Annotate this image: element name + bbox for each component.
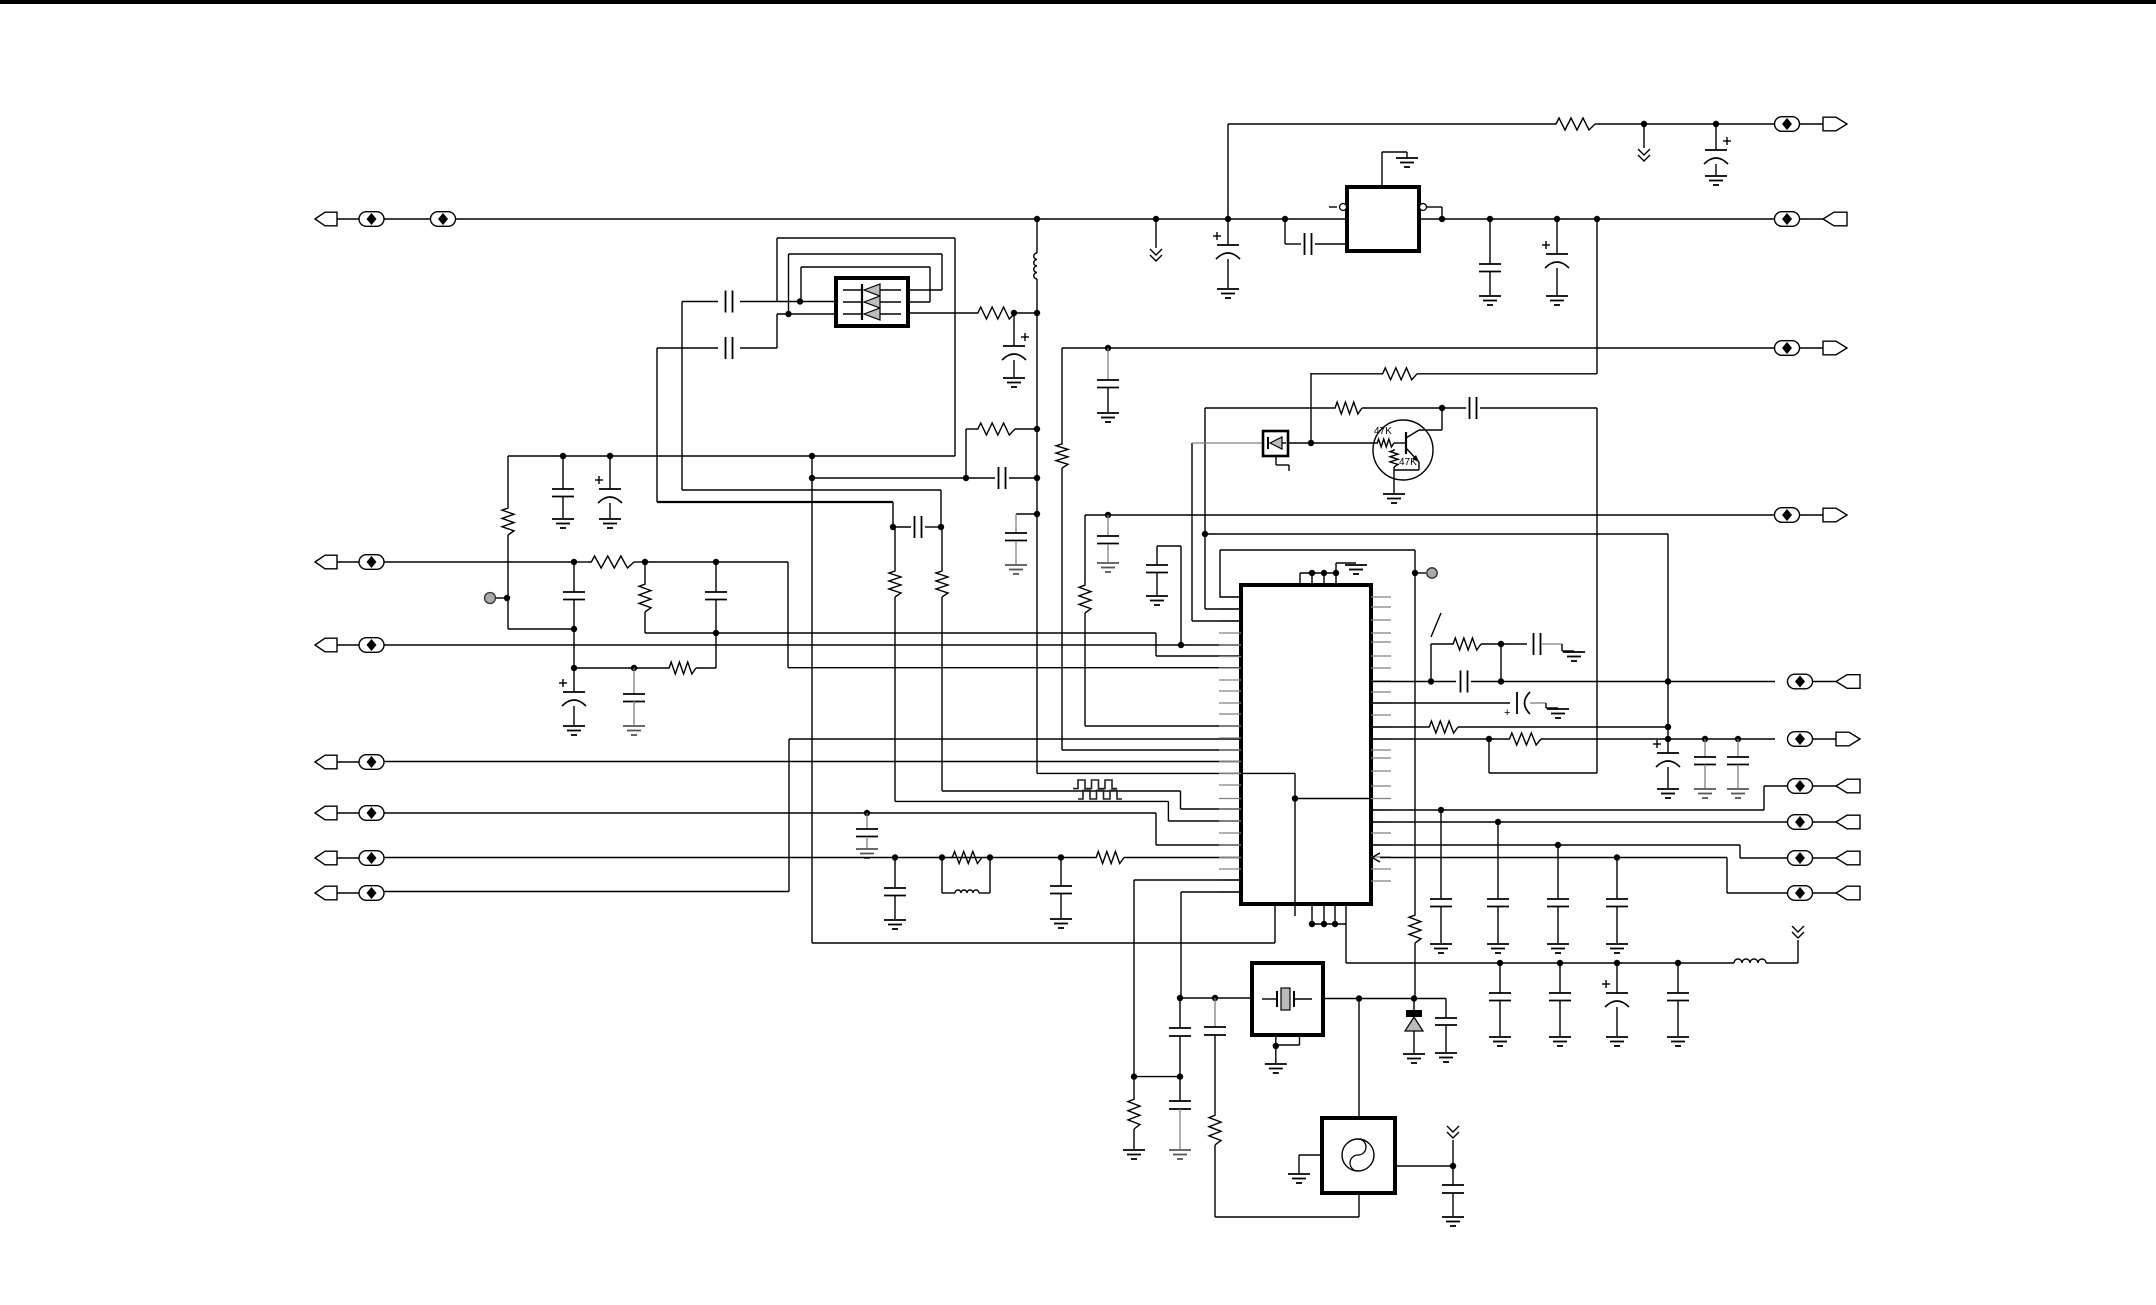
row478 with capacitor C7 [963,475,969,481]
junction x1442 [1439,216,1445,222]
corner x1062 down [1061,348,1063,442]
capacitor C6 polarized [1013,313,1015,346]
capacitor C25 row644 [1501,643,1527,645]
wire x1192 bus diode row [1191,443,1193,621]
wire up from 1228 to rail124 [1227,124,1229,219]
U2 left pin bubble [1329,206,1337,208]
Q1 emitter ground [1383,493,1405,495]
wire x941 from y490 [940,490,942,527]
wire x895 wave row [895,800,1168,802]
row810 to connector786 [1371,809,1764,811]
resistor R12 x1415 [1409,913,1421,943]
capacitor C27 polarized x1668 [1657,752,1679,754]
resistor R2 vertical x895 [894,527,896,569]
row739 wire to IC [789,738,1241,740]
capacitor C1 at 563 [560,453,566,459]
crystal X1 box [1252,963,1323,1035]
capacitor C2 polarized at 610 [607,453,613,459]
oscillator left pin ground [1299,1154,1322,1156]
x1215 chain cap C41 [1214,998,1216,1027]
wire rail858 [384,857,1095,859]
Q1 emitter resistor 47K [1390,449,1398,467]
wire x812 vertical [811,456,813,943]
row857 arrow into IC [1372,853,1380,862]
capacitor C17 x716 [715,562,717,592]
connector CNR6 [1788,732,1813,747]
capacitor C10 polarized at 1228 [1227,219,1229,245]
ground row644 [1563,651,1585,653]
wire x1597 from rail219 [1596,219,1598,374]
wire x682 down [681,302,683,491]
capacitor C30 x1441 [1440,810,1442,899]
LED block U3 [836,278,908,326]
capacitor C28 x1705 [1704,739,1706,757]
wire over-top loop [1220,549,1415,551]
junction x812 rail456 [809,453,815,459]
junction x1228 [1225,216,1231,222]
wire to oscillator bottom [1215,1216,1359,1218]
resistor R20 on rail124 [1553,118,1595,130]
pulse glyph lower [1078,790,1122,799]
resistor R1 vertical x508 [502,506,514,535]
IC left pin stubs [1219,596,1241,598]
transistor Q1 [1373,420,1433,480]
U2 right pin bubble [1420,204,1427,211]
connector J6 [315,851,337,865]
capacitor C34 x1500 [1499,963,1501,993]
wire x1359 to oscillator [1358,999,1360,1119]
resistor R5 row429 [966,428,975,430]
wire rail219 [455,218,1347,220]
capacitor C33 x1617 [1616,858,1618,900]
junction x1311 [1308,440,1314,446]
crystal area wires [1177,995,1183,1001]
resistor R21 vertical x1062 [1056,442,1068,468]
wire rail348 [1062,347,1775,349]
row374 resistor R13 [1311,373,1380,375]
LED D3 [843,313,862,315]
wire x1134-x1180 link [1134,1076,1180,1078]
LED block loops outer [954,238,956,456]
capacitor C24 row408 [1442,407,1466,409]
row408 resistor R14 [1205,407,1333,409]
pad P1 grey [485,593,496,604]
diode D4 bottom stub [1275,456,1277,465]
wire x1062 to IC pin [1062,749,1241,751]
capacitor C29 x1738 [1737,739,1739,757]
wire x1037 vertical [1036,312,1038,773]
ground below C10 [1217,288,1239,290]
wire rail645 to IC [384,644,1242,646]
junction pad [504,595,510,601]
connector CNR5 [1788,674,1813,689]
IC bottom pins [1274,904,1276,943]
LED block loops middle [788,254,790,314]
wire x893 to cap row [892,502,894,527]
wire x1415 long vertical [1414,550,1416,913]
LED out resistor R4 [908,312,975,314]
wire y490 row [682,489,941,491]
inductor L1 vertical [1036,219,1038,253]
IC right pin stubs [1371,596,1391,598]
connector J7 [315,886,337,900]
oscillator right pin [1395,1165,1453,1167]
row727 resistor R15 [1371,726,1427,728]
pulse glyph upper [1073,780,1117,789]
diode D4 box [1263,431,1288,456]
resistor R7 rail562 [571,559,577,565]
test point oval TP2 [431,212,456,227]
wire IC internal trace [1243,772,1295,774]
row739 resistor R16 to connector [1371,738,1489,740]
rail813 jog to IC pin845 [1155,813,1157,845]
wire x1346 down to rail963 [1345,924,1347,963]
junction 1644 + arrow ground [1641,121,1647,127]
resistor R17 x1134 [1133,1077,1135,1097]
row703 polarized cap C26 [1371,702,1510,704]
crystal symbol [1262,998,1277,1000]
wire y943 to left [812,942,1275,944]
voltage regulator U2 [1347,187,1419,251]
wire x1037 to IC pin774 [1037,772,1241,774]
row668 node lower [571,665,577,671]
IC top pins [1299,573,1301,585]
capacitor C13 polarized at 1557 [1554,216,1560,222]
capacitor C11 to regulator [1284,219,1286,244]
wire x657 down [656,348,658,502]
capacitor C22 x895 [894,858,896,889]
wire x1205 bus [1204,408,1206,609]
wire rail813 [384,812,1157,814]
LED block loops inner [800,267,802,302]
junction x1597 rail219 [1594,216,1600,222]
connector CNR7 [1788,779,1813,794]
capacitor C5 in row527 [890,524,896,530]
Q1 collector [1406,430,1419,438]
capacitor C18 polarized x574 [573,668,575,692]
row668 wire to IC [788,667,1241,669]
svg-text:+: + [1504,707,1510,719]
junction caps on rail858 [892,854,898,860]
junction x1037 row313 [1034,310,1040,316]
connector CNR3 [1775,341,1800,356]
capacitor C12 at 1490 [1487,216,1493,222]
wire x1181 from IC pin892 [1181,891,1241,893]
resistor R6 vertical x1085 [1084,515,1086,583]
wire x1597 second vertical [1596,408,1598,773]
crystal right row [1323,998,1446,1000]
capacitor C19 x634 [633,668,635,694]
row644 slash switch [1430,644,1432,681]
wire rail893 [384,891,790,893]
wire y502 row thick [657,501,893,503]
row681 to connector687 [1371,681,1431,683]
resistor R18 x1215 [1209,1113,1221,1145]
capacitor C21 at 867 [864,810,870,816]
row514 stub cap C8 [1016,513,1037,515]
connector CNR9 [1788,851,1813,866]
wire rail762 to IC [384,761,1242,763]
wire x788 rail562 corner [787,562,789,668]
row633 jog to IC pin656 [1155,633,1157,656]
inductor L3 [1734,959,1766,963]
connector J3 [315,638,337,652]
junction on rail219 x1037 [1034,216,1040,222]
junction C6 [1011,310,1017,316]
capacitor C42 x1453 [1452,1166,1454,1185]
wire rail124 [1228,123,1553,125]
connector J5 [315,806,337,820]
connector CNR2 [1775,212,1800,227]
capacitor C3 left of LED block [682,301,718,303]
oscillator symbol [1342,1139,1374,1171]
capacitor C36 polarized x1617 [1616,963,1618,993]
wire y456 rail [508,455,955,457]
capacitor C38 x1446 [1445,999,1447,1019]
Q1 emitter with arrow [1406,448,1419,462]
IC U1 main [1241,585,1371,904]
wire x1311 up to row374 [1310,373,1312,443]
resistor R9 row668 [667,662,696,674]
resistor R3 vertical x942 [941,527,943,569]
junction x1156 + arrow ground [1153,216,1159,222]
junction row534 [1202,531,1208,537]
wire x789 up to row739 [788,739,790,892]
connector J1 arrow [315,212,337,226]
junction x1181 rail645 [1178,642,1184,648]
vertical x508 [507,456,509,506]
row822 to connector822 [1371,821,1788,823]
junction x1442 row408 [1439,405,1445,411]
wire x942 wave row [942,790,1181,792]
zener D5 [1413,999,1415,1011]
antenna chevron right [1797,940,1799,963]
connector CNR1 [1775,117,1800,132]
svg-text:47K: 47K [1374,426,1392,437]
capacitor C32 x1558 [1557,845,1559,899]
connector CNR8 [1788,815,1813,830]
capacitor C16 x574 [573,562,575,592]
antenna chevron x1453 [1452,1140,1454,1166]
wire x1181 up capacitor C20 [1180,546,1182,645]
capacitor C15 at 1108 [1105,345,1111,351]
junction x1285 [1282,216,1288,222]
cap C40 x1180 lower [1179,1077,1181,1101]
wire rail562 [384,561,575,563]
capacitor C37 x1678 [1677,963,1679,993]
cap C39 x1180 upper [1179,998,1181,1028]
row534 to right corner [1205,533,1668,535]
wire x1668 vertical [1667,534,1669,753]
resistor R11 parallel inductor L2 [939,854,945,860]
LED D1 [843,289,862,291]
connector CNR10 [1788,886,1813,901]
row845 to connector858 [1371,844,1740,846]
crystal bottom pins to ground [1275,1035,1277,1046]
wire corner to x574 [508,628,574,630]
row633 node [645,632,1156,634]
wire x1134 from IC pin880 [1134,879,1241,881]
loop row773 to resistor row739 [1489,772,1597,774]
LED D2 [843,301,862,303]
capacitor C23 x1061 [1060,858,1062,887]
oscillator U4 [1322,1118,1395,1193]
row515 to connector [1085,514,1775,516]
wire x1085 to IC pin726 [1085,725,1241,727]
top border bar [0,0,2156,4]
capacitor C14 polarized at 1716 [1713,121,1719,127]
capacitor C9 at 1108 row515 [1105,512,1111,518]
connector J4 [315,755,337,769]
junction dots at LED left [797,298,803,304]
connector CNR4 [1775,508,1800,523]
capacitor C31 x1498 [1497,822,1499,899]
connector J2 [315,555,337,569]
row443 diode [1192,442,1263,444]
U2 top pin to ground [1381,152,1383,187]
rail963 [1346,962,1734,964]
capacitor C35 x1560 [1559,963,1561,993]
capacitor C4 second left [657,347,718,349]
resistor R10 to IC pin857 [1094,852,1124,864]
grey pad top right [1412,570,1418,576]
resistor R8 vertical x645 [644,562,646,582]
